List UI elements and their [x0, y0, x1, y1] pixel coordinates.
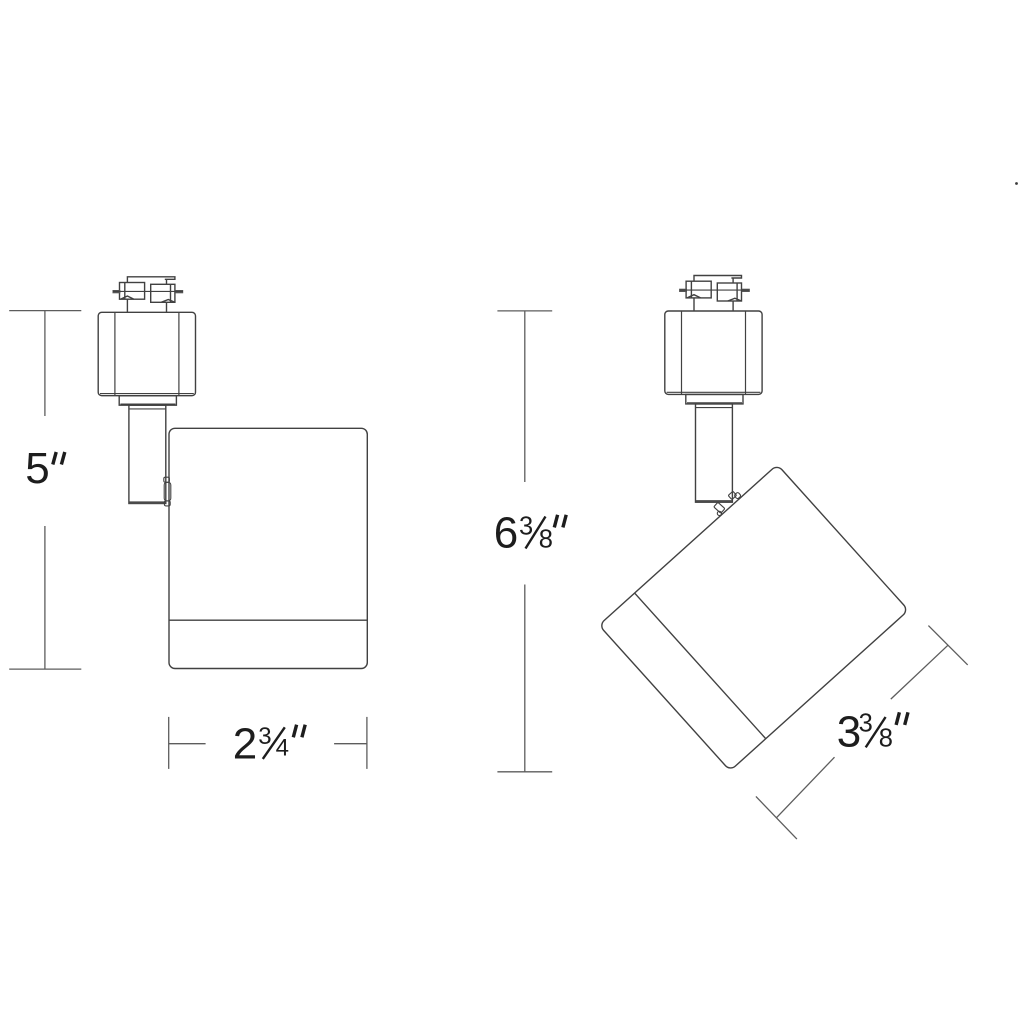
left view: lamp head	[169, 428, 367, 668]
left view: swivel clip bottom nub	[164, 501, 170, 506]
3 3/8 inch dimension: upper tick	[928, 626, 967, 665]
6 3/8 inch label	[494, 509, 566, 558]
5 inch dimension: line lower segment	[44, 526, 46, 669]
5 inch label	[25, 444, 65, 493]
5 inch dimension: top tick	[9, 310, 81, 312]
6 3/8 inch dimension: line upper segment	[524, 311, 526, 482]
svg-text:3: 3	[519, 513, 533, 541]
2 3/4 inch dimension: line right segment	[334, 743, 367, 745]
right view: hinge knuckle b	[734, 492, 741, 499]
svg-text:5: 5	[25, 444, 49, 493]
svg-text:8: 8	[879, 724, 893, 752]
2 3/4 inch label	[233, 719, 305, 768]
right view: latch lever tip	[717, 511, 721, 515]
3 3/8 inch label	[837, 708, 908, 757]
6 3/8 inch dimension: line lower segment	[524, 585, 526, 772]
left view: swivel clip body	[164, 482, 171, 501]
right view: latch lever	[714, 502, 725, 513]
2 3/4 inch dimension: right tick	[366, 717, 368, 769]
5 inch dimension: bottom tick	[9, 668, 81, 670]
6 3/8 inch dimension: bottom tick	[497, 771, 552, 773]
2 3/4 inch dimension: left tick	[168, 717, 170, 769]
right view: track adapter and stem	[665, 276, 762, 503]
left view: lamp head bezel line	[169, 619, 367, 621]
2 3/4 inch dimension: line left segment	[169, 743, 206, 745]
5 inch dimension: line upper segment	[44, 311, 46, 416]
svg-text:6: 6	[494, 509, 518, 558]
svg-text:4: 4	[276, 735, 289, 762]
svg-text:8: 8	[539, 526, 553, 554]
3 3/8 inch dimension: line upper segment	[891, 645, 948, 699]
6 3/8 inch dimension: top tick	[497, 310, 552, 312]
svg-text:3: 3	[859, 710, 873, 738]
right view: hinge knuckle a	[728, 491, 737, 499]
3 3/8 inch dimension: lower tick	[756, 796, 797, 839]
right view: tilted lamp head	[599, 465, 909, 771]
left view: swivel clip top nub	[164, 477, 170, 482]
right view: tilted head bezel line	[635, 593, 766, 739]
svg-text:2: 2	[233, 719, 257, 768]
stray ink speck	[1015, 182, 1018, 185]
left view: track adapter and stem	[98, 277, 195, 504]
svg-text:3: 3	[258, 723, 271, 750]
3 3/8 inch dimension: line lower segment	[776, 757, 834, 818]
